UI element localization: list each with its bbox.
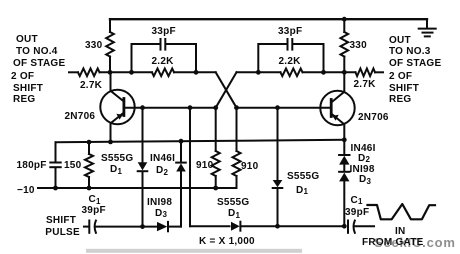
node gate input / D3 right bbox=[342, 224, 347, 229]
waveform triangle input symbol bbox=[368, 204, 436, 219]
wire left-base to right trigger line bbox=[189, 108, 191, 227]
wire right output lead bbox=[375, 71, 383, 73]
emitter arrow Q1 bbox=[116, 114, 123, 120]
wire right base rail bbox=[237, 107, 332, 109]
value label 330 right bbox=[350, 41, 367, 51]
wire cross-couple slant A (left collector to right base) bbox=[216, 72, 237, 107]
node label OUT TO NO.3 bbox=[389, 36, 411, 46]
resistor 2.2K right bbox=[281, 69, 303, 77]
resistor 2.7K left bbox=[78, 69, 100, 77]
node -10 rail / 180pF bbox=[53, 186, 58, 191]
part label S555G D1 right bbox=[287, 172, 319, 182]
node -10 rail / 150 bbox=[87, 186, 92, 191]
wire right trigger line bbox=[190, 225, 230, 227]
node right base rail / 910 bbox=[234, 105, 239, 110]
value label 2.7K right bbox=[354, 80, 376, 90]
value label 330 left bbox=[85, 41, 102, 51]
diode D2 1N461 right branch bbox=[339, 140, 349, 171]
node right base / D1 bbox=[275, 105, 280, 110]
node right collector bbox=[342, 70, 347, 75]
value label 2.2K left bbox=[152, 57, 174, 67]
resistor 2.7K right bbox=[356, 69, 376, 77]
part label 1N461 D2 right bbox=[351, 144, 376, 154]
diode D1 S555G right branch bbox=[273, 108, 283, 227]
value label 33pF left bbox=[152, 27, 176, 37]
node -10 rail / 910 bbox=[213, 186, 218, 191]
node left base / trigger line bbox=[188, 105, 193, 110]
diode D3 1N198 right branch bbox=[339, 172, 349, 226]
node emitter rail / 150 bbox=[87, 140, 92, 145]
capacitor C1 39pF right (gate input) bbox=[348, 221, 374, 233]
node right RC box right bbox=[321, 70, 326, 75]
resistor 330 right bbox=[341, 19, 349, 72]
wire left output lead bbox=[69, 71, 78, 73]
part label S555G D1 mid bbox=[217, 198, 249, 208]
capacitor 33pF left branch bbox=[132, 39, 197, 72]
node emitter rail / D2 left bbox=[179, 139, 184, 144]
wire to left cross corner bbox=[174, 71, 216, 73]
value label 150 bbox=[64, 161, 81, 171]
value label 910 no1 bbox=[196, 161, 213, 171]
node label OUT TO NO.4 bbox=[16, 35, 38, 45]
resistor 910 no2 bbox=[233, 108, 241, 188]
wire left collector node row bbox=[100, 71, 153, 73]
node left collector bbox=[108, 70, 113, 75]
wire left base rail bbox=[124, 107, 216, 109]
wire -10 rail bbox=[38, 187, 237, 189]
scan artifact bar bbox=[86, 249, 302, 253]
part label 2N706 right bbox=[358, 113, 389, 123]
watermark SeekIC.com bbox=[374, 236, 456, 249]
capacitor 33pF right branch bbox=[258, 39, 323, 72]
wire emitter rail bbox=[56, 140, 345, 143]
transistor Q2 2N706 right bbox=[320, 72, 354, 140]
node top rail / 330 right bbox=[342, 17, 347, 22]
node label -10 bbox=[17, 186, 35, 196]
node label FROM GATE bbox=[362, 238, 424, 248]
value label 910 no2 bbox=[241, 162, 258, 172]
value label 180pF bbox=[17, 161, 47, 171]
transistor Q1 2N706 left bbox=[100, 72, 134, 142]
resistor 150 bbox=[85, 142, 93, 188]
node left RC box left bbox=[129, 70, 134, 75]
node left RC box right bbox=[194, 70, 199, 75]
capacitor 180pF branch bbox=[50, 142, 60, 188]
diode D2 1N461 left branch bbox=[176, 141, 186, 226]
part label C1 39pF right bbox=[351, 196, 363, 206]
value label 2.7K left bbox=[80, 81, 102, 91]
resistor 910 no1 bbox=[212, 108, 220, 188]
wire cross-couple slant B (right collector to left base) bbox=[216, 72, 237, 107]
diode D1 S555G mid (on right trigger line) bbox=[231, 222, 344, 231]
note K=X 1,000 bbox=[199, 237, 255, 247]
ground bbox=[419, 19, 436, 36]
resistor 330 left bbox=[106, 19, 114, 72]
part label 2N706 left bbox=[65, 112, 96, 122]
node right emitter bbox=[342, 137, 347, 142]
value label 33pF right bbox=[278, 27, 302, 37]
node shift pulse / D1 left bbox=[140, 224, 145, 229]
part label C1 39pF left bbox=[89, 195, 101, 205]
emitter arrow Q2 bbox=[332, 115, 339, 121]
node left base rail end / 910 bbox=[213, 105, 218, 110]
node label SHIFT PULSE bbox=[46, 216, 76, 226]
resistor 2.2K left bbox=[152, 69, 174, 77]
node right RC box left bbox=[256, 70, 261, 75]
part label S555G D1 left bbox=[101, 154, 133, 164]
diode D1 S555G left branch bbox=[138, 108, 148, 227]
part label IN198 D3 right bbox=[350, 165, 375, 175]
part label IN198 D3 left bbox=[147, 198, 172, 208]
wire right collector node row bbox=[237, 71, 281, 73]
value label 2.2K right bbox=[279, 57, 301, 67]
part label IN461 D2 left bbox=[150, 154, 175, 164]
diode D3 1N198 left (on shift pulse line) bbox=[157, 222, 181, 231]
node trigger line / D1 right bbox=[275, 224, 280, 229]
node label IN bbox=[395, 227, 406, 237]
wire bbox=[303, 71, 356, 73]
capacitor C1 39pF shift-pulse bbox=[84, 221, 157, 233]
node left base / D1 bbox=[140, 105, 145, 110]
wire top supply rail bbox=[110, 18, 427, 20]
node left emitter bbox=[108, 140, 113, 145]
